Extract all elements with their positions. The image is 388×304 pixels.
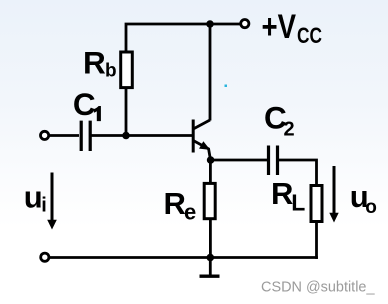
svg-text:R: R [271,176,293,211]
svg-text:R: R [164,186,186,221]
junction: ground node [207,254,215,262]
wire: Rb bottom to base node [125,89,128,136]
capacitor C2 [269,146,278,176]
wire: C1 to transistor base [92,134,193,137]
wire: bottom rail [50,256,318,259]
svg-text:C: C [73,86,96,122]
arrow ui (input voltage) [47,173,57,230]
wire: collector up to Vcc rail [209,24,212,121]
wire: emitter node to C2 [211,159,268,162]
junction: base node (Rb joins) [122,132,130,140]
svg-text:CSDN @subtitle_: CSDN @subtitle_ [261,279,375,296]
wire: Vcc top rail with corner down to Rb [126,24,241,51]
svg-text:b: b [105,60,117,81]
wire: emitter node down to Re [209,160,212,184]
junction: collector to Vcc rail [206,20,214,28]
terminal: input top [41,131,49,139]
wire: C2 to RL top [279,160,317,185]
svg-text:L: L [291,190,305,216]
wire: RL bottom to bottom rail [315,222,318,259]
resistor Re [204,183,215,218]
svg-text:o: o [365,197,377,218]
stray cyan artifact dot [225,85,228,88]
transistor Q1 (NPN) [193,120,210,160]
wire: input terminal to C1 [50,134,80,137]
svg-text:u: u [24,180,43,215]
svg-text:CC: CC [297,23,322,48]
terminal: +Vcc open circle [241,20,249,28]
svg-text:R: R [83,45,106,81]
arrow uo (output voltage) [329,166,338,223]
junction: emitter node [207,156,215,164]
resistor Rb [121,52,133,88]
svg-text:e: e [184,200,196,225]
resistor RL [311,186,322,222]
svg-text:2: 2 [284,119,295,141]
svg-text:i: i [41,195,47,217]
ground [200,258,220,277]
svg-text:+V: +V [262,8,297,46]
wire: Re bottom to ground node [209,219,212,258]
terminal: input bottom [41,253,49,261]
capacitor C1 [81,121,90,151]
